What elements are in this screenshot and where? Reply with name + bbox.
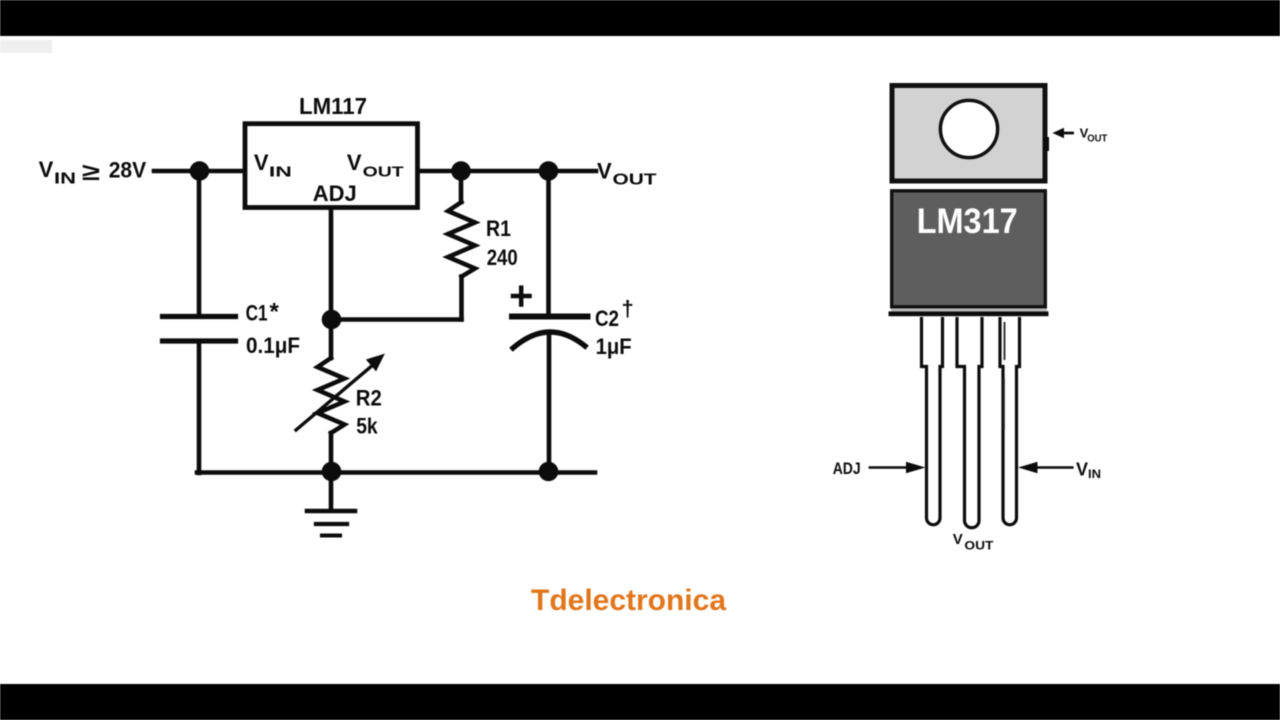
svg-text:28V: 28V: [109, 158, 147, 183]
svg-text:OUT: OUT: [613, 172, 657, 189]
svg-text:ADJ: ADJ: [313, 181, 357, 206]
svg-text:OUT: OUT: [964, 539, 994, 553]
svg-text:OUT: OUT: [1087, 134, 1107, 145]
svg-text:IN: IN: [54, 171, 76, 188]
svg-text:1μF: 1μF: [596, 334, 632, 359]
svg-text:LM117: LM117: [299, 93, 367, 119]
svg-text:V: V: [597, 159, 612, 184]
svg-text:ADJ: ADJ: [833, 459, 861, 478]
svg-text:OUT: OUT: [363, 164, 404, 181]
svg-text:V: V: [1076, 460, 1088, 480]
svg-text:C1: C1: [246, 301, 268, 326]
svg-text:Tdelectronica: Tdelectronica: [531, 584, 726, 617]
svg-text:R1: R1: [486, 216, 511, 241]
svg-text:0.1μF: 0.1μF: [246, 333, 300, 358]
svg-text:V: V: [254, 150, 269, 175]
svg-text:C2: C2: [595, 306, 619, 331]
svg-text:V: V: [39, 157, 54, 182]
svg-text:240: 240: [487, 245, 518, 270]
svg-text:LM317: LM317: [917, 202, 1018, 241]
svg-text:5k: 5k: [356, 414, 378, 439]
svg-text:V: V: [347, 150, 362, 175]
svg-text:IN: IN: [1088, 467, 1101, 481]
svg-text:V: V: [953, 531, 963, 548]
svg-text:R2: R2: [356, 386, 382, 411]
svg-text:IN: IN: [269, 164, 292, 181]
svg-text:*: *: [270, 299, 280, 326]
svg-text:≥: ≥: [82, 159, 100, 186]
svg-text:†: †: [622, 296, 634, 321]
